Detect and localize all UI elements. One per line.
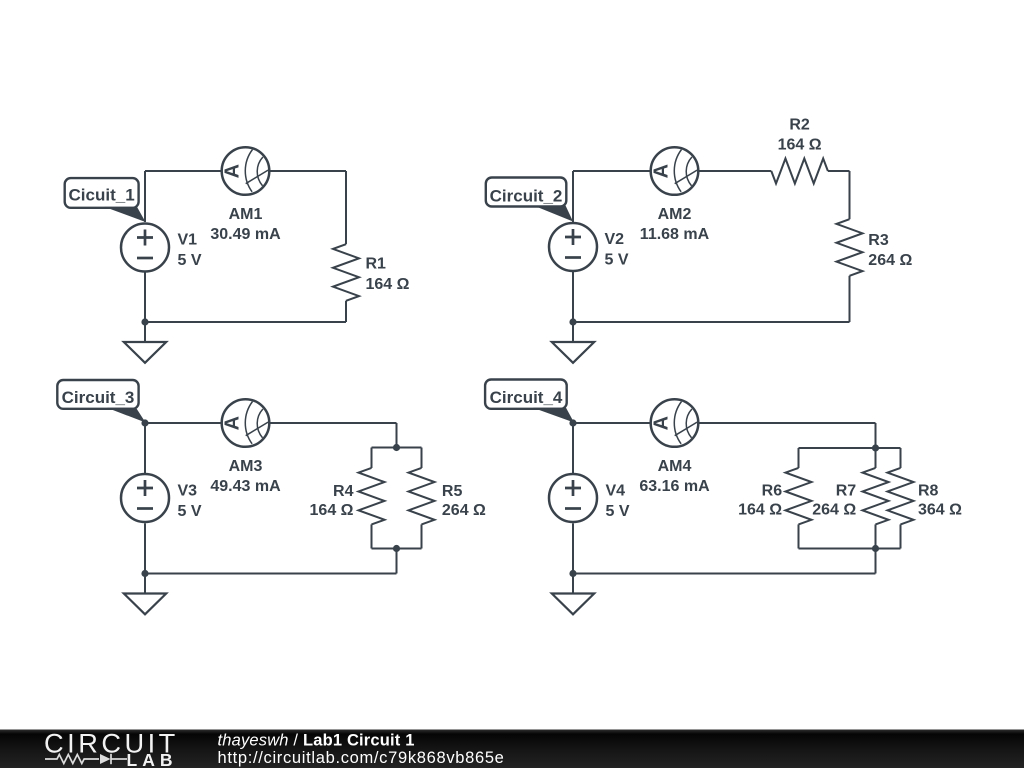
svg-text:Cicuit_1: Cicuit_1 xyxy=(69,186,135,205)
ammeter AM3 xyxy=(222,399,270,447)
wire: R4 top leg xyxy=(371,448,373,469)
callout Circuit_2 xyxy=(486,178,567,207)
svg-text:5 V: 5 V xyxy=(605,252,629,269)
wire: V2 bottom riser to ground xyxy=(572,271,574,342)
ammeter AM1 xyxy=(222,147,270,195)
wire: right lower segment xyxy=(849,276,851,322)
svg-text:LAB: LAB xyxy=(127,750,178,768)
resistor R5 xyxy=(409,468,435,525)
wire: V4 top riser xyxy=(572,423,574,473)
ground xyxy=(124,342,166,363)
svg-text:5 V: 5 V xyxy=(606,503,630,520)
callout tail xyxy=(534,206,574,222)
svg-text:http://circuitlab.com/c79k868v: http://circuitlab.com/c79k868vb865e xyxy=(218,749,505,767)
svg-text:R2: R2 xyxy=(789,117,810,134)
wire: node riser to bracket xyxy=(875,423,877,448)
wire: V3 top riser xyxy=(144,423,146,473)
svg-text:R3: R3 xyxy=(868,232,889,249)
svg-text:AM2: AM2 xyxy=(658,206,692,223)
ammeter AM4 xyxy=(651,399,699,447)
wire: node drop xyxy=(396,549,398,574)
wire: bracket top xyxy=(799,447,901,449)
node: ground dot xyxy=(569,570,576,577)
wire: top horizontal right xyxy=(828,170,850,172)
wire: R7 bottom leg xyxy=(875,524,877,548)
voltage source V2 xyxy=(549,223,597,271)
logo resistor-diode glyph xyxy=(45,754,127,764)
svg-text:R8: R8 xyxy=(918,483,939,500)
wire: bottom horizontal xyxy=(573,321,850,323)
svg-text:49.43 mA: 49.43 mA xyxy=(210,478,281,495)
svg-text:164 Ω: 164 Ω xyxy=(366,276,410,293)
svg-text:R7: R7 xyxy=(836,483,857,500)
wire: R6 top leg xyxy=(798,448,800,468)
ground xyxy=(552,342,594,363)
wire: V1 bottom riser to ground xyxy=(144,271,146,342)
resistor R6 xyxy=(786,468,812,525)
wire: bottom horizontal xyxy=(145,573,397,575)
wire: V4 bottom riser to ground xyxy=(572,523,574,593)
callout Circuit_3 xyxy=(57,380,138,409)
svg-text:5 V: 5 V xyxy=(178,503,202,520)
wire: V2 top riser xyxy=(572,171,574,222)
ground xyxy=(124,594,166,615)
voltage source V3 xyxy=(121,474,169,522)
wire: R5 top leg xyxy=(421,448,423,469)
wire: top horizontal xyxy=(573,422,876,424)
wire: right lower segment xyxy=(345,301,347,322)
svg-text:Circuit_2: Circuit_2 xyxy=(490,187,563,206)
svg-text:264 Ω: 264 Ω xyxy=(812,502,856,519)
node: junction dot bottom-left xyxy=(569,318,576,325)
callout Circuit_4 xyxy=(485,380,567,409)
ammeter AM2 xyxy=(651,147,699,195)
wire: bottom horizontal xyxy=(145,321,346,323)
svg-text:164 Ω: 164 Ω xyxy=(310,502,354,519)
svg-text:30.49 mA: 30.49 mA xyxy=(210,226,281,243)
wire: R7 top leg xyxy=(875,448,877,468)
svg-text:AM3: AM3 xyxy=(229,458,263,475)
svg-text:V2: V2 xyxy=(605,231,625,248)
resistor R8 xyxy=(888,468,914,525)
wire: bracket bottom xyxy=(372,548,422,550)
wire: top horizontal left xyxy=(573,170,771,172)
resistor R4 xyxy=(359,468,385,525)
node: corner dot top-left xyxy=(569,419,576,426)
wire: bracket bottom xyxy=(799,548,901,550)
wire: bottom horizontal xyxy=(573,573,876,575)
svg-text:5 V: 5 V xyxy=(178,252,202,269)
svg-text:Circuit_4: Circuit_4 xyxy=(490,388,563,407)
svg-text:AM1: AM1 xyxy=(229,206,263,223)
svg-text:V3: V3 xyxy=(178,483,198,500)
wire: top horizontal xyxy=(145,422,397,424)
svg-text:11.68 mA: 11.68 mA xyxy=(640,226,710,243)
wire: right upper segment xyxy=(849,171,851,219)
voltage source V4 xyxy=(549,474,597,522)
ground xyxy=(552,594,594,615)
resistor R2 xyxy=(771,159,828,184)
svg-text:V4: V4 xyxy=(606,483,626,500)
callout tail xyxy=(533,408,574,423)
wire: R5 bottom leg xyxy=(421,524,423,548)
svg-text:R6: R6 xyxy=(762,483,783,500)
resistor R1 xyxy=(333,244,359,301)
svg-text:V1: V1 xyxy=(178,232,198,249)
svg-text:164 Ω: 164 Ω xyxy=(778,136,822,153)
svg-text:264 Ω: 264 Ω xyxy=(868,252,912,269)
wire: node drop xyxy=(875,549,877,574)
wire: bracket top xyxy=(372,447,422,449)
svg-text:264 Ω: 264 Ω xyxy=(442,502,486,519)
wire: R6 bottom leg xyxy=(798,524,800,548)
wire: right upper segment xyxy=(345,171,347,244)
wire: top horizontal xyxy=(145,170,346,172)
svg-text:R5: R5 xyxy=(442,483,463,500)
svg-text:Circuit_3: Circuit_3 xyxy=(62,388,135,407)
wire: R8 top leg xyxy=(900,448,902,468)
svg-text:164 Ω: 164 Ω xyxy=(738,502,782,519)
svg-text:AM4: AM4 xyxy=(658,458,692,475)
callout tail xyxy=(107,408,146,423)
wire: node riser to bracket xyxy=(396,423,398,448)
node: parallel top dot xyxy=(872,444,879,451)
resistor R7 xyxy=(863,468,889,525)
node: ground dot xyxy=(141,570,148,577)
svg-text:R4: R4 xyxy=(333,483,354,500)
node: parallel bottom dot xyxy=(393,545,400,552)
wire: V3 bottom riser to ground xyxy=(144,523,146,593)
node: corner dot top-left xyxy=(141,419,148,426)
callout Cicuit_1 xyxy=(65,178,139,208)
wire: R4 bottom leg xyxy=(371,524,373,548)
footer background xyxy=(0,730,1024,768)
svg-text:364 Ω: 364 Ω xyxy=(918,502,962,519)
node: parallel top dot xyxy=(393,444,400,451)
node: parallel bottom dot xyxy=(872,545,879,552)
wire: V1 top riser xyxy=(144,171,146,222)
voltage source V1 xyxy=(121,224,169,272)
wire: R8 bottom leg xyxy=(900,524,902,548)
svg-text:R1: R1 xyxy=(366,255,387,272)
svg-text:63.16 mA: 63.16 mA xyxy=(639,478,710,495)
callout tail xyxy=(105,207,146,222)
node: junction dot bottom-left xyxy=(141,318,148,325)
svg-text:thayeswh / Lab1 Circuit 1: thayeswh / Lab1 Circuit 1 xyxy=(218,732,415,750)
resistor R3 xyxy=(837,219,863,276)
